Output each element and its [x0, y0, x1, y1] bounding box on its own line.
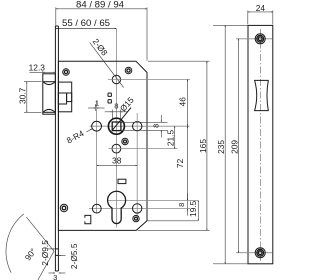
euro profile cylinder hole [108, 191, 126, 223]
follower hub U-shape [108, 108, 131, 135]
small square slots [108, 93, 111, 96]
faceplate side view [55, 26, 58, 271]
hole right follower level [133, 122, 142, 131]
svg-text:55 / 60 / 65: 55 / 60 / 65 [62, 18, 110, 29]
svg-text:21.5: 21.5 [165, 130, 175, 147]
hole right cylinder level [133, 204, 142, 213]
dimension 12.3 latch projection [29, 63, 56, 74]
hole left follower level [92, 121, 102, 131]
dimension 19.5 [188, 200, 198, 220]
screw boss upper left [63, 69, 70, 76]
follower centerline [90, 125, 190, 127]
screw hole bottom [236, 248, 272, 258]
leader 2-Ø8 [90, 37, 124, 88]
cylinder cam rectangle [118, 179, 126, 183]
dimension 1 [88, 99, 105, 214]
extension line hole centerline [108, 79, 190, 81]
screw boss lower right [133, 215, 139, 221]
dimension 165 case height [138, 61, 210, 230]
svg-text:8: 8 [152, 124, 161, 128]
dimension 21.5 [165, 126, 175, 148]
dimension 8 above follower right [122, 115, 168, 138]
faceplate centerline [259, 29, 261, 261]
svg-text:12.3: 12.3 [29, 63, 46, 73]
centerline spindle axis [115, 29, 117, 228]
svg-text:1: 1 [95, 99, 99, 108]
90 degree countersink fan [6, 214, 54, 280]
screw boss mid [122, 138, 128, 144]
dimension 38 [97, 155, 138, 165]
dimension 46 [178, 80, 188, 127]
svg-text:2-Ø5.5: 2-Ø5.5 [69, 243, 79, 269]
lock case outline [58, 61, 147, 230]
retaining clip [85, 215, 91, 223]
dimension 30.7 latch height [18, 82, 42, 113]
svg-text:84 / 89 / 94: 84 / 89 / 94 [76, 0, 125, 10]
dimension 235 [213, 25, 248, 263]
svg-text:3: 3 [53, 273, 57, 280]
svg-text:24: 24 [256, 3, 266, 13]
screw boss lower left [60, 204, 67, 211]
hole left cylinder level [92, 204, 101, 213]
svg-text:8: 8 [177, 203, 186, 207]
faceplate front outline [248, 25, 273, 263]
svg-text:165: 165 [198, 139, 208, 153]
svg-text:46: 46 [178, 97, 188, 107]
svg-text:2-Ø9.5: 2-Ø9.5 [40, 240, 50, 266]
label 2-Ø9.5 [40, 240, 58, 266]
extension lower holes centerline [89, 207, 190, 209]
hole below follower [112, 144, 121, 153]
screw boss upper right [125, 67, 132, 74]
dimension 8 follower square width [105, 101, 128, 120]
svg-text:38: 38 [112, 155, 122, 165]
dimension 3 faceplate thickness [48, 273, 65, 280]
extension corner line [147, 220, 198, 222]
screw hole top [236, 34, 272, 44]
extension cylinder centerline [108, 199, 198, 201]
svg-text:235: 235 [216, 140, 226, 154]
latch tail body [58, 82, 71, 112]
dimension 209 [229, 39, 239, 253]
label 8-R4 [65, 128, 92, 146]
svg-text:30.7: 30.7 [18, 87, 28, 104]
extension line right holes [136, 113, 138, 222]
dimension 55/60/65 backset [56, 18, 117, 29]
dimension 84/89/94 overall depth [56, 0, 147, 61]
latch bolt head [43, 74, 56, 114]
dimension 72 [175, 126, 188, 200]
dimension 24 faceplate width [248, 3, 273, 24]
hole 2-Ø8 upper [112, 75, 120, 83]
svg-text:72: 72 [175, 158, 185, 168]
label 2-Ø5.5 [55, 243, 78, 269]
dimension 8 cylinder to hole [177, 193, 188, 215]
latch cutout spool [255, 80, 269, 110]
svg-text:209: 209 [229, 140, 239, 154]
